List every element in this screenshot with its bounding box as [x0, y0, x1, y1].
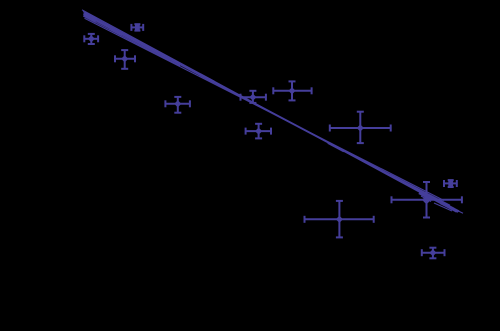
fit line strand c: [84, 15, 455, 209]
fit line strand d: [83, 12, 458, 213]
fit line fan segment f3: [446, 205, 463, 213]
fit line knot 3: [328, 143, 344, 152]
fit line fan segment f2: [440, 204, 458, 213]
data point 2 error bars: [115, 50, 135, 69]
fit line knot lower strand: [421, 196, 431, 202]
fit line knot 2: [200, 75, 214, 83]
data point 3 error bars: [165, 97, 190, 113]
data point 7 error bars: [330, 112, 391, 143]
small data point 10 error bars: [444, 180, 457, 187]
data point 6 error bars: [246, 124, 271, 139]
fit line strand b: [84, 16, 450, 205]
fit line left knot blob: [84, 14, 96, 20]
fit line knot near data point 9: [419, 193, 432, 200]
fit line strand e: [82, 10, 457, 212]
data point 4 error bars: [241, 91, 266, 103]
data point 5 error bars: [273, 81, 311, 100]
fit line knot 1: [110, 28, 122, 34]
fit line fan segment f1: [434, 203, 452, 211]
data point 9 error bars: [392, 182, 462, 218]
data point 1 error bars: [84, 34, 98, 44]
fit line strand a: [85, 18, 445, 200]
data point 11 error bars: [422, 248, 445, 259]
data point 8 error bars: [305, 201, 374, 238]
small data point 12 error bars: [131, 24, 143, 31]
fit line main strand: [84, 14, 460, 212]
